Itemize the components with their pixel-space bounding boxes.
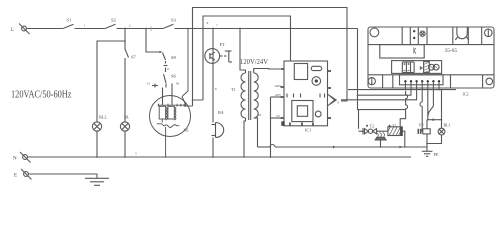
- svg-text:S1: S1: [67, 18, 73, 23]
- svg-text:IC1: IC1: [305, 128, 311, 133]
- svg-text:0V: 0V: [277, 114, 282, 118]
- svg-text:E: E: [14, 174, 17, 179]
- svg-text:1: 1: [84, 24, 86, 28]
- svg-text:PE: PE: [434, 152, 439, 157]
- svg-text:J3: J3: [147, 82, 150, 86]
- svg-text:S7: S7: [131, 55, 137, 60]
- svg-text:BL1: BL1: [444, 122, 451, 127]
- svg-text:3: 3: [135, 152, 137, 156]
- svg-text:J8: J8: [176, 82, 179, 86]
- svg-text:S3: S3: [171, 18, 177, 23]
- svg-text:120V/24V: 120V/24V: [240, 59, 268, 66]
- svg-text:7: 7: [216, 24, 218, 28]
- svg-text:8: 8: [338, 101, 340, 105]
- svg-text:N: N: [13, 157, 17, 162]
- svg-text:BL: BL: [124, 115, 130, 120]
- svg-text:240V: 240V: [275, 84, 283, 88]
- svg-text:T2: T2: [370, 123, 374, 128]
- svg-text:S8: S8: [171, 55, 177, 60]
- svg-text:BA: BA: [218, 110, 224, 115]
- svg-text:2: 2: [129, 24, 131, 28]
- svg-text:24: 24: [258, 113, 262, 117]
- svg-text:35-65: 35-65: [445, 48, 458, 54]
- svg-text:T1: T1: [231, 87, 236, 92]
- svg-text:S6: S6: [171, 74, 177, 79]
- svg-text:U: U: [215, 87, 218, 91]
- svg-text:IC2: IC2: [463, 92, 469, 97]
- svg-text:M1: M1: [184, 129, 189, 133]
- svg-text:120V: 120V: [275, 93, 283, 97]
- svg-text:11: 11: [167, 67, 170, 71]
- svg-text:YV: YV: [419, 123, 425, 128]
- svg-text:PT: PT: [220, 42, 225, 47]
- svg-text:P: P: [207, 21, 209, 25]
- svg-text:L: L: [11, 28, 14, 33]
- svg-text:S2: S2: [111, 18, 117, 23]
- svg-text:BL2: BL2: [99, 115, 106, 120]
- svg-text:120VAC/50-60Hz: 120VAC/50-60Hz: [11, 89, 72, 101]
